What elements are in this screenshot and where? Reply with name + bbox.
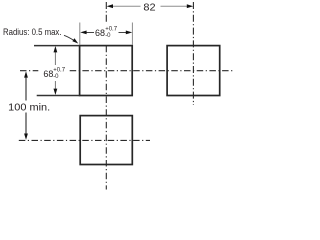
vertical dimension label 68 +0.7/-0 [43, 67, 65, 80]
100 min dimension line upper segment with up arrowhead [24, 71, 28, 100]
svg-text:68: 68 [43, 69, 53, 79]
leader line from radius note to corner with arrowhead [64, 35, 78, 43]
extension of top edge to the left [34, 45, 80, 47]
vertical centerline through right cutout [192, 2, 194, 105]
svg-text:100 min.: 100 min. [8, 102, 50, 114]
horizontal centerline through bottom cutout [19, 139, 150, 141]
svg-text:Radius: 0.5 max.: Radius: 0.5 max. [3, 27, 62, 37]
horizontal centerline through main and right cutouts [20, 70, 234, 72]
82 dimension line right segment with right arrowhead [161, 4, 194, 8]
right panel cutout square [167, 46, 220, 96]
82 dimension line left segment with left arrowhead [107, 4, 141, 8]
vertical 68 dimension line bottom segment with down arrowhead [54, 81, 58, 95]
svg-text:82: 82 [143, 2, 155, 14]
vertical 68 dimension line top segment with up arrowhead [54, 46, 58, 65]
100 min dimension line lower segment with down arrowhead [24, 113, 28, 140]
radius note label [3, 27, 62, 37]
svg-text:+0.7: +0.7 [53, 67, 66, 73]
vertical extension line above left edge [79, 23, 81, 46]
dimension label 82 [143, 2, 155, 14]
svg-text:-0: -0 [53, 74, 59, 80]
main panel cutout square [80, 46, 133, 96]
vertical extension line above right edge [131, 23, 133, 46]
bottom panel cutout square [80, 116, 132, 165]
svg-text:68: 68 [95, 28, 105, 38]
svg-text:+0.7: +0.7 [105, 27, 118, 33]
extension of bottom edge to the left [37, 95, 80, 97]
horizontal dimension label 68 +0.7/-0 [95, 27, 118, 39]
horizontal 68 dimension line right segment with right arrowhead [119, 31, 133, 35]
dimension label 100 min. [8, 102, 50, 114]
vertical centerline through main and bottom cutouts [105, 2, 107, 190]
svg-text:-0: -0 [105, 33, 111, 39]
horizontal 68 dimension line left segment with left arrowhead [80, 31, 94, 35]
